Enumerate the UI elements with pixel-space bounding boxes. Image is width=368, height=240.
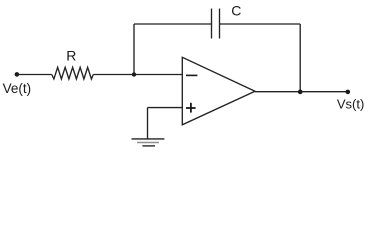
svg-text:Ve(t): Ve(t) — [3, 81, 32, 96]
wire feedback vertical right — [299, 24, 301, 92]
op-amp U1 — [182, 57, 255, 125]
resistor R — [52, 67, 94, 79]
svg-text:C: C — [231, 3, 241, 19]
wire input terminal to resistor — [17, 74, 52, 76]
svg-text:Vs(t): Vs(t) — [337, 97, 364, 112]
ground — [132, 138, 165, 140]
node output feedback junction — [298, 90, 303, 95]
wire resistor to op-amp inverting input — [93, 74, 182, 76]
wire non-inverting input — [148, 107, 183, 109]
node Ve(t) input terminal — [15, 72, 20, 77]
capacitor C — [211, 9, 213, 39]
wire feedback vertical left — [133, 24, 135, 75]
wire capacitor to feedback right — [220, 23, 301, 25]
wire feedback top left to capacitor — [134, 23, 212, 25]
wire ground stem horizontal to vertical — [147, 108, 149, 139]
node junction at inverting input — [132, 72, 136, 76]
op-amp inverting input marker (minus) — [186, 75, 197, 77]
svg-text:R: R — [66, 48, 76, 64]
node Vs(t) output terminal — [346, 90, 351, 95]
op-amp non-inverting input marker (plus) — [186, 107, 196, 109]
wire output — [255, 91, 348, 93]
